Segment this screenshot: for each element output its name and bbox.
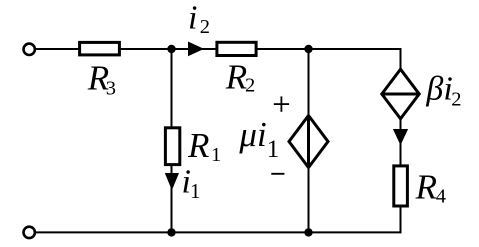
svg-text:R: R (415, 168, 437, 207)
wire top horizontal (35, 48, 402, 50)
resistor R4 (394, 166, 408, 206)
wire left-middle vertical (R1 branch) (171, 49, 173, 232)
junction node top-left (167, 45, 175, 53)
terminal bottom-left (24, 227, 35, 238)
dependent source U1 (mu-i1 diamond) (289, 116, 328, 168)
svg-text:4: 4 (436, 185, 446, 207)
svg-text:i: i (188, 0, 197, 37)
svg-text:1: 1 (211, 144, 221, 166)
dependent source U2 (beta-i2 diamond) (382, 69, 419, 119)
svg-text:1: 1 (267, 136, 280, 163)
arrow i2 (current direction, right) (188, 42, 204, 57)
svg-text:2: 2 (451, 89, 461, 111)
wire middle vertical (dependent source branch) (308, 49, 310, 232)
resistor R2 (217, 42, 256, 55)
svg-text:3: 3 (106, 78, 116, 100)
junction node top-middle (304, 45, 312, 53)
svg-text:R: R (187, 126, 209, 165)
svg-text:1: 1 (190, 179, 201, 203)
svg-text:R: R (225, 57, 247, 96)
wire bottom horizontal (35, 231, 402, 233)
arrow i1 (current direction, down) (165, 173, 179, 190)
wire right vertical (beta-i2 / R4 branch) (400, 48, 402, 233)
svg-text:μi: μi (238, 115, 266, 154)
terminal top-left (24, 44, 35, 55)
resistor R1 (165, 128, 179, 165)
svg-text:2: 2 (200, 16, 210, 38)
label plus (274, 96, 289, 111)
arrow beta-i2 source current (down) (393, 129, 408, 145)
svg-text:2: 2 (245, 75, 255, 97)
junction node bottom-middle (304, 228, 312, 236)
svg-text:βi: βi (425, 71, 452, 108)
resistor R3 (80, 42, 120, 55)
junction node bottom-left (167, 228, 175, 236)
label minus (271, 173, 284, 175)
